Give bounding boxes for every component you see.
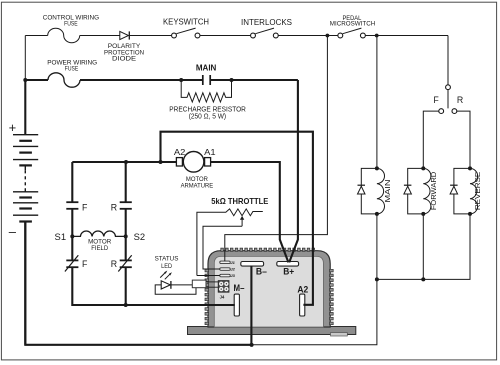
battery B1 cells top group (13, 134, 38, 136)
svg-text:FORWARD: FORWARD (429, 172, 438, 210)
node S2 (124, 234, 128, 238)
node reverse coil bottom (468, 212, 472, 216)
svg-text:F: F (82, 259, 88, 269)
wire: F top to S1 (71, 209, 73, 261)
diode D-forward flyback (408, 168, 424, 214)
svg-text:MAIN: MAIN (196, 64, 217, 73)
svg-text:ARMATURE: ARMATURE (181, 182, 214, 189)
node main coil bottom (375, 212, 379, 216)
node MAIN coil feed junction (375, 34, 379, 38)
svg-text:R: R (111, 202, 117, 212)
svg-text:FUSE: FUSE (64, 21, 78, 28)
wire: forward coil bottom to bus (422, 214, 424, 280)
svg-text:J3: J3 (230, 273, 235, 278)
svg-text:F: F (82, 202, 88, 212)
wire: LED cathode to plug (171, 284, 192, 286)
node field R-branch top (124, 160, 128, 164)
node coil return forward (421, 277, 425, 281)
svg-text:REVERSE: REVERSE (473, 172, 482, 211)
wire: main coil bottom to bus (376, 214, 378, 280)
wire: R bottom to M- rail (125, 267, 127, 305)
wire: feed to main coil (376, 36, 378, 169)
svg-text:LED: LED (161, 263, 172, 270)
node power junction (23, 78, 27, 82)
LED D5 indicator (161, 281, 170, 289)
wire: main contactor to B+ corner (211, 79, 298, 81)
wire: battery to power fuse (25, 79, 48, 81)
node coil return main (375, 277, 379, 281)
svg-text:(250 Ω, 5 W): (250 Ω, 5 W) (189, 112, 226, 121)
pin J2 pad (220, 268, 230, 271)
svg-text:J4: J4 (220, 295, 225, 300)
terminal M- slot (234, 294, 239, 316)
wire: battery+ to control fuse (25, 35, 47, 37)
wire: B- bottom bus (thick) (25, 222, 251, 345)
wire: power fuse to main contactor (80, 79, 202, 81)
wire: bus control-to-power segment (24, 36, 26, 81)
battery B1 cells bottom group (13, 191, 38, 193)
F/R selector pole lever (447, 90, 449, 109)
diode D-reverse flyback (454, 168, 470, 214)
svg-text:–: – (9, 224, 17, 239)
wire: interlocks to pedal microswitch (278, 35, 337, 37)
wire: diode to keyswitch (129, 35, 171, 37)
svg-text:INTERLOCKS: INTERLOCKS (241, 18, 293, 27)
wire: R top to S2 (125, 209, 127, 261)
inductor motor field winding (72, 231, 125, 236)
F/R selector forward contact (439, 109, 444, 114)
wire: keyswitch to interlocks (200, 35, 250, 37)
terminal B- slot (241, 262, 264, 267)
wire: down to F/R selector (447, 36, 449, 85)
wire: plug to J4 pin a (206, 281, 218, 283)
node precharge right (230, 78, 234, 82)
wire: F bottom to M- rail (72, 267, 235, 305)
armature terminal A2 (176, 158, 182, 166)
wire: F contact to forward coil (423, 111, 439, 168)
coil FORWARD contactor (423, 168, 431, 214)
node B- bus junction (250, 343, 254, 347)
fuse F1 (control wiring) (48, 28, 80, 42)
contact R bottom (tip with slash) (120, 259, 132, 261)
wire: fuse to diode (80, 35, 120, 37)
F/R selector reverse contact (452, 109, 457, 114)
terminal A2 slot (300, 294, 305, 316)
contact F top (tip) (71, 162, 73, 202)
svg-text:F: F (433, 95, 439, 105)
node precharge left (179, 78, 183, 82)
node S1 (70, 234, 74, 238)
contact F bottom (tip with slash) (66, 259, 78, 261)
connector J4 (218, 281, 229, 293)
controller U1 body (208, 251, 330, 327)
throttle wiper arrow (241, 219, 243, 226)
node main coil top (375, 166, 379, 170)
wire: field top rail (72, 161, 176, 163)
LED plug housing (192, 280, 206, 288)
svg-text:B+: B+ (283, 267, 294, 277)
svg-text:J2: J2 (230, 267, 235, 272)
wire: KSI to J1 (225, 36, 328, 262)
pedal microswitch SW3 (338, 33, 343, 38)
keyswitch SW1 (172, 33, 177, 38)
controller U1 inner face (214, 256, 323, 327)
svg-text:R: R (457, 95, 463, 105)
svg-text:MICROSWITCH: MICROSWITCH (330, 21, 376, 28)
motor armature M1 (183, 152, 204, 173)
wire: B- bus to contactor coils return (thin) (252, 279, 377, 344)
terminal B+ slot (277, 262, 299, 267)
pin J1 pad (220, 261, 230, 264)
node A2/field junction (159, 160, 163, 164)
wire: armature A2 over to controller A2 (161, 132, 313, 305)
wire: reverse coil bottom to bus (377, 214, 470, 280)
F/R selector common pole (446, 85, 451, 90)
coil MAIN contactor (377, 168, 385, 214)
resistor R1 precharge (181, 80, 231, 102)
node KSI junction (326, 34, 330, 38)
node M- junction (124, 303, 128, 307)
wire: pedal microswitch to F/R selector (366, 35, 449, 37)
battery B1 dashed middle (more cells) (24, 165, 26, 170)
wire: B- terminal drop (250, 266, 252, 345)
diode D-main flyback (361, 168, 377, 214)
svg-text:A2: A2 (297, 284, 308, 294)
fuse F2 (power wiring) (48, 73, 80, 87)
svg-text:FIELD: FIELD (91, 245, 108, 252)
node forward coil top (421, 166, 425, 170)
wire: wiper to J2 (203, 226, 242, 269)
svg-text:M–: M– (234, 283, 245, 293)
pin J3 pad (220, 274, 230, 277)
svg-text:+: + (9, 120, 17, 135)
battery B1 positive lead (24, 80, 26, 135)
main contactor tips (202, 75, 204, 85)
svg-text:KEYSWITCH: KEYSWITCH (163, 17, 209, 27)
armature terminal A1 (205, 158, 211, 166)
svg-text:5kΩ THROTTLE: 5kΩ THROTTLE (211, 197, 268, 206)
LED emission arrows (160, 273, 165, 278)
svg-text:STATUS: STATUS (155, 255, 179, 262)
controller U1 heatsink teeth left (205, 269, 209, 324)
svg-text:MAIN: MAIN (383, 180, 392, 203)
wire: B+ V left (from armature A1) (211, 162, 289, 262)
svg-text:A1: A1 (204, 147, 216, 157)
battery B1 negative lead (24, 222, 26, 345)
svg-text:B–: B– (256, 267, 267, 277)
svg-text:S1: S1 (55, 232, 67, 242)
wire: B+ V right (from main contactor) (289, 80, 298, 262)
svg-text:J1: J1 (230, 260, 235, 265)
svg-text:S2: S2 (134, 232, 146, 242)
resistor 5k throttle (197, 209, 263, 276)
contact R top (tip) (125, 162, 127, 202)
wire: plug to J4 pin b (206, 286, 218, 288)
controller U1 heatsink teeth right (330, 269, 334, 324)
svg-text:FUSE: FUSE (65, 66, 79, 73)
node forward coil bottom (421, 212, 425, 216)
controller U1 base plate (188, 327, 356, 335)
svg-text:DIODE: DIODE (112, 55, 137, 62)
svg-text:A2: A2 (174, 147, 186, 157)
diode D1 polarity protection (120, 31, 129, 39)
controller U1 heatsink teeth top (221, 248, 315, 251)
coil REVERSE contactor (470, 168, 478, 214)
node reverse coil top (468, 166, 472, 170)
interlocks switch SW2 (251, 33, 256, 38)
wire: R contact to reverse coil (457, 111, 470, 168)
svg-text:R: R (111, 259, 117, 269)
wire: LED anode loop to plug (155, 285, 196, 294)
